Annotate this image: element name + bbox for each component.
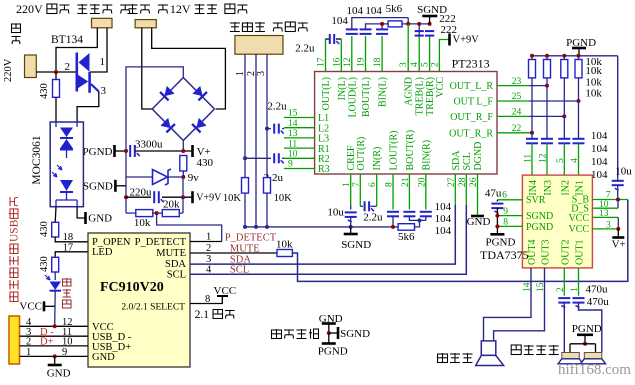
svg-text:LOUD(L): LOUD(L) bbox=[347, 77, 358, 118]
wire R430b to FC910 pin18 bbox=[55, 237, 88, 242]
svg-text:104: 104 bbox=[435, 225, 452, 237]
svg-text:PT2313: PT2313 bbox=[452, 57, 490, 71]
symbol V+ bar (TDA) bbox=[612, 236, 624, 239]
svg-text:IN2: IN2 bbox=[560, 180, 571, 196]
svg-text:V+9V: V+9V bbox=[196, 193, 222, 204]
wire IN(R) pin down bbox=[376, 174, 378, 206]
svg-text:104: 104 bbox=[347, 5, 364, 17]
wire column 3 upper bbox=[563, 56, 565, 60]
svg-text:OUT3: OUT3 bbox=[541, 239, 552, 265]
IC U5 TDA7375 box bbox=[522, 175, 592, 268]
svg-text:SGND: SGND bbox=[83, 181, 113, 193]
wire column 4 lower bbox=[578, 78, 580, 139]
svg-text:2.2u: 2.2u bbox=[295, 42, 315, 54]
symbol V+ bar bbox=[191, 145, 194, 157]
wire PT2313 input stub 9 bbox=[284, 168, 315, 170]
svg-text:VCC: VCC bbox=[19, 301, 42, 313]
wire output 4 to column bbox=[529, 132, 532, 134]
svg-text:5k6: 5k6 bbox=[398, 231, 415, 243]
svg-text:PGND: PGND bbox=[486, 237, 516, 249]
junction R tap bbox=[243, 156, 247, 160]
junction pull bus col1 bbox=[530, 54, 534, 58]
wire OUT4 to subwoofer bbox=[484, 268, 532, 341]
bridge rectifier diamond bbox=[183, 78, 214, 110]
capacitor C 104 in4 bbox=[573, 138, 585, 140]
speaker surround 1 bbox=[562, 353, 580, 359]
junction pin21/20 caps bbox=[418, 218, 422, 222]
wire FC910 pin1 P_DETECT bbox=[190, 241, 222, 243]
wire AC2 from J3 right pin to bridge right bbox=[152, 28, 226, 109]
svg-text:D+: D+ bbox=[40, 337, 54, 348]
wire left rail to 10k bbox=[126, 212, 136, 214]
wire PT2313 input stub 15 bbox=[284, 117, 315, 119]
junction bus pin3 bbox=[265, 225, 269, 229]
svg-text:1: 1 bbox=[100, 56, 106, 68]
wire 104b to mid bus bbox=[366, 24, 389, 30]
resistor R 10k MUTE bbox=[277, 250, 292, 257]
svg-text:2.0/2.1 SELECT: 2.0/2.1 SELECT bbox=[121, 303, 185, 313]
wire OUT(R) to 2.2u bbox=[360, 205, 363, 207]
svg-text:3: 3 bbox=[256, 71, 267, 76]
svg-text:220V: 220V bbox=[16, 2, 43, 16]
svg-text:10u: 10u bbox=[615, 166, 632, 178]
svg-text:10k: 10k bbox=[585, 65, 602, 77]
wire PT2313 output 4 bbox=[497, 132, 529, 134]
wire USB row D- bbox=[20, 335, 89, 337]
svg-text:9v: 9v bbox=[188, 172, 200, 184]
svg-text:BOUT(R): BOUT(R) bbox=[405, 130, 416, 171]
capacitor C 104 (pin12) bbox=[346, 28, 358, 30]
svg-text:430: 430 bbox=[39, 83, 50, 99]
svg-text:IN(R): IN(R) bbox=[372, 147, 383, 171]
bridge diode D3 (bottom-left) bbox=[160, 118, 175, 133]
zener diode D5 9v bbox=[153, 170, 168, 185]
wire SVR to 47u bbox=[496, 200, 498, 202]
resistor R 10k pull 1 bbox=[529, 60, 536, 78]
wire PT2313 input stub 13 bbox=[284, 137, 315, 139]
svg-text:PGND: PGND bbox=[83, 146, 113, 158]
svg-text:VCC: VCC bbox=[214, 285, 237, 297]
wire S_B to D_S bbox=[617, 200, 619, 209]
wire node A down to R 430 bbox=[55, 72, 57, 80]
wire SGND stub (U5) bbox=[497, 215, 522, 217]
svg-text:5k6: 5k6 bbox=[386, 3, 403, 15]
symbol GND bar (MOC) bbox=[84, 212, 87, 224]
wire SGND stem (CREF) bbox=[350, 227, 352, 234]
svg-text:V+9V: V+9V bbox=[453, 35, 480, 46]
junction divider mid bbox=[155, 211, 159, 215]
svg-text:V+: V+ bbox=[612, 238, 626, 250]
svg-text:4: 4 bbox=[570, 158, 580, 163]
svg-text:R3: R3 bbox=[318, 164, 330, 175]
svg-text:SDA: SDA bbox=[165, 259, 186, 270]
svg-text:11: 11 bbox=[524, 154, 534, 163]
wire PGND bar to cap 3300u bbox=[115, 150, 129, 152]
svg-text:TDA7375: TDA7375 bbox=[480, 248, 529, 262]
junction pull bus col4 bbox=[577, 54, 581, 58]
wire output 1 to column bbox=[529, 85, 547, 87]
wire FC910 pin8 to VCC bbox=[190, 296, 222, 304]
connector J4 PC audio bbox=[235, 36, 283, 55]
symbol GND bar (DGND) bbox=[471, 215, 484, 218]
svg-text:430: 430 bbox=[197, 157, 214, 169]
svg-text:GND: GND bbox=[92, 352, 115, 363]
wire column 2 to TDA pin bbox=[546, 143, 548, 175]
svg-text:OUT(R): OUT(R) bbox=[356, 137, 367, 171]
wire USB row GND bbox=[20, 355, 89, 357]
capacitor C 104 in1 bbox=[526, 138, 538, 140]
svg-text:FC910V20: FC910V20 bbox=[100, 280, 164, 295]
svg-text:13: 13 bbox=[288, 129, 298, 139]
resistor R 10k pull 4 bbox=[575, 60, 582, 78]
svg-text:VCC: VCC bbox=[568, 224, 589, 235]
wire left rail vertical bbox=[125, 151, 127, 213]
junction 5k6b left bbox=[391, 225, 395, 229]
svg-text:14: 14 bbox=[288, 119, 298, 129]
svg-text:DGND: DGND bbox=[473, 142, 484, 171]
resistor R 430 P_OPEN bbox=[52, 222, 59, 237]
wire 47u to PGND bbox=[496, 208, 498, 234]
wire 220u to V+9V bar bbox=[162, 196, 193, 198]
wire audio ground bus bbox=[245, 226, 351, 228]
wire star GND stem bbox=[328, 324, 330, 334]
junction output 2/column bbox=[577, 99, 581, 103]
label surround speakers bbox=[511, 345, 559, 355]
wire SGND bar to left rail bbox=[115, 185, 126, 187]
symbol V+9V bar (left) bbox=[191, 191, 194, 203]
capacitor C 222 (pin5) bbox=[425, 30, 434, 32]
wire audio pin1 down bbox=[244, 54, 246, 227]
svg-text:6: 6 bbox=[502, 191, 507, 201]
wire zener cathode to 9v node bbox=[168, 176, 184, 178]
symbol GND bar (USB) bbox=[48, 364, 62, 367]
svg-text:IN4: IN4 bbox=[528, 180, 539, 196]
svg-text:47u: 47u bbox=[485, 187, 502, 199]
svg-text:430: 430 bbox=[39, 221, 50, 237]
svg-text:SGND: SGND bbox=[526, 211, 553, 222]
wire R430 to 9v node bbox=[182, 171, 184, 177]
svg-text:OUT_L_R: OUT_L_R bbox=[450, 81, 494, 92]
symbol SGND bar (CREF) bbox=[344, 233, 358, 236]
resistor R 10K right bbox=[264, 178, 271, 194]
wire bridge bottom to V+ node bbox=[182, 141, 184, 152]
wire divider mid to P_DETECT bbox=[157, 213, 222, 241]
svg-text:OUT_R_F: OUT_R_F bbox=[450, 112, 493, 123]
capacitor C 104 (pin20) bbox=[420, 211, 432, 213]
wire column 4 to TDA pin bbox=[578, 143, 580, 175]
wire PGND stub (U5) bbox=[497, 225, 522, 227]
wire 5k6b right bend bbox=[415, 220, 420, 227]
svg-text:104: 104 bbox=[435, 213, 452, 225]
wire V+ stem bbox=[617, 229, 619, 237]
wire R cap to R2 stub bbox=[282, 157, 284, 159]
wire PGND to speaker returns bbox=[570, 343, 596, 345]
symbol SGND bar (top) bbox=[422, 15, 437, 18]
svg-text:2.2u: 2.2u bbox=[363, 211, 383, 223]
wire OUT2 down bbox=[563, 268, 565, 296]
wire column 1 lower bbox=[531, 78, 533, 139]
capacitor C 220u bbox=[153, 191, 155, 203]
svg-text:SCL: SCL bbox=[462, 152, 473, 170]
junction 9v node bbox=[181, 175, 185, 179]
wire VCC bar to LED column bbox=[44, 305, 55, 307]
junction SGND/47u bbox=[495, 214, 499, 218]
junction PGND/47u bbox=[495, 224, 499, 228]
junction 9v/220u node bbox=[181, 195, 185, 199]
svg-text:20k: 20k bbox=[163, 199, 180, 211]
wire OUT(R) pin down bbox=[359, 174, 361, 206]
svg-text:10: 10 bbox=[288, 150, 298, 160]
wire R430c to LED bbox=[54, 272, 56, 280]
svg-text:9: 9 bbox=[288, 160, 293, 170]
junction V+ node bbox=[181, 149, 185, 153]
svg-text:3300u: 3300u bbox=[135, 139, 163, 151]
symbol GND bar (star) bbox=[322, 322, 336, 325]
wire 9v node to 20k bbox=[182, 177, 184, 213]
wire SCL pin down bbox=[465, 174, 467, 205]
resistor R 5k6 bottom bbox=[398, 224, 414, 231]
wire PT2313 input stub 10 bbox=[284, 157, 315, 159]
svg-text:104: 104 bbox=[435, 201, 452, 213]
svg-text:104: 104 bbox=[591, 156, 608, 168]
junction output 3/column bbox=[562, 114, 566, 118]
wire BIN(R) pin down bbox=[425, 174, 427, 210]
svg-text:2.1: 2.1 bbox=[195, 309, 210, 321]
svg-text:10k: 10k bbox=[585, 88, 602, 100]
junction left-rail/220u bbox=[124, 195, 128, 199]
svg-text:104: 104 bbox=[365, 5, 382, 17]
label zhishideng indicator (vertical) bbox=[63, 278, 72, 308]
capacitor C 470u (OUT1) bbox=[573, 297, 585, 299]
wire 2.2u to IN(R) bbox=[371, 205, 377, 207]
wire 220V input to triac MT1 bbox=[36, 71, 75, 73]
wire 470u-1 to speaker1 bbox=[563, 303, 565, 353]
wire 10u to bus bbox=[350, 217, 352, 227]
junction 104c/bus bbox=[380, 22, 384, 26]
wire R tap to R cap bbox=[245, 157, 271, 159]
wire 20k to 9v column bbox=[179, 212, 183, 214]
wire D_S stub bbox=[592, 207, 618, 209]
wire pin18 up bbox=[381, 36, 383, 72]
wire pin5 up bbox=[429, 36, 431, 72]
wire zener anode to left rail bbox=[126, 176, 153, 178]
wire OUT1 down bbox=[578, 268, 580, 296]
svg-text:PGND: PGND bbox=[526, 222, 553, 233]
junction 222a bbox=[417, 22, 421, 26]
wire FC910 pin2 to R10k bbox=[190, 252, 277, 254]
wire 5k6 to AGND node bbox=[402, 23, 430, 25]
resistor R 10k pull 3 bbox=[561, 60, 568, 78]
svg-text:SGND: SGND bbox=[341, 239, 371, 251]
svg-text:IN(L): IN(L) bbox=[337, 77, 348, 100]
svg-text:11: 11 bbox=[288, 139, 297, 149]
wire 10u top stem bbox=[617, 179, 619, 181]
optocoupler U2 MOC3061 box bbox=[50, 122, 83, 207]
wire 10k to 20k bbox=[153, 212, 163, 214]
label input (vertical) bbox=[12, 24, 21, 44]
svg-text:OUT(L): OUT(L) bbox=[321, 77, 332, 110]
wire 104 pin20 stem bbox=[425, 216, 427, 220]
svg-text:P_DETECT: P_DETECT bbox=[135, 237, 187, 248]
svg-text:PGND: PGND bbox=[318, 346, 348, 358]
svg-text:430: 430 bbox=[39, 256, 50, 272]
svg-text:470u: 470u bbox=[586, 284, 609, 296]
svg-text:12: 12 bbox=[539, 153, 549, 163]
svg-text:5: 5 bbox=[556, 158, 566, 163]
wire pin4 up bbox=[418, 36, 420, 72]
wire S_B to standby bus bbox=[592, 199, 627, 201]
svg-text:MOC3061: MOC3061 bbox=[31, 135, 43, 184]
svg-text:BIN(R): BIN(R) bbox=[421, 140, 432, 171]
junction output 4/column bbox=[530, 131, 534, 135]
wire VCC pin2 to V+9V bbox=[439, 40, 448, 72]
symbol PGND bar (bus) bbox=[572, 47, 586, 50]
svg-text:12V: 12V bbox=[170, 2, 191, 16]
label transformer 12V AC input bbox=[128, 2, 248, 16]
symbol SGND bar (star) bbox=[337, 327, 340, 339]
wire SVR stub bbox=[497, 199, 522, 201]
symbol PGND bar (bridge) bbox=[113, 145, 116, 157]
MOC3061 internal LED bbox=[52, 165, 77, 207]
svg-text:LOUT(R): LOUT(R) bbox=[389, 131, 400, 171]
connector J3 transformer-12V AC bbox=[135, 20, 156, 28]
capacitor C 3300u bbox=[129, 145, 131, 157]
wire to L cap bbox=[267, 128, 271, 130]
wire 104a to top bus bbox=[352, 18, 408, 30]
wire star SGND stem bbox=[329, 332, 338, 334]
wire 2.2u cap to pin16 bbox=[336, 38, 341, 40]
junction bus pin2 bbox=[254, 225, 258, 229]
wire PT2313 input stub 11 bbox=[284, 147, 315, 149]
wire AGND pin up bbox=[407, 24, 409, 72]
wire 470u-2 to speaker2 bbox=[579, 303, 602, 353]
wire column 2 lower bbox=[546, 78, 548, 139]
wire pin19 up bbox=[365, 36, 367, 72]
wire 104c stem bbox=[381, 24, 383, 30]
svg-text:SGND: SGND bbox=[340, 328, 370, 340]
svg-text:470u: 470u bbox=[587, 296, 610, 308]
resistor R 430 (V+ to 9v) bbox=[180, 156, 187, 172]
label one-point common ground bbox=[272, 329, 320, 339]
junction VCC row bbox=[53, 324, 57, 328]
svg-text:220V: 220V bbox=[3, 58, 14, 82]
connector J1 220V input bbox=[25, 55, 37, 78]
svg-text:BOUT(L): BOUT(L) bbox=[361, 77, 372, 117]
wire PT2313 input stub 14 bbox=[284, 127, 315, 129]
svg-text:TREB(L): TREB(L) bbox=[415, 77, 426, 115]
wire PGND stem (bus) bbox=[578, 48, 580, 56]
svg-text:VCC: VCC bbox=[568, 213, 589, 224]
wire triac gate to MOC3061 pin bbox=[77, 92, 99, 123]
svg-text:2.2u: 2.2u bbox=[267, 101, 287, 113]
svg-text:hifi168.com: hifi168.com bbox=[558, 362, 631, 378]
svg-text:AGND: AGND bbox=[404, 77, 415, 106]
resistor R 20k divider bbox=[162, 210, 179, 217]
resistor R 5k6 top bbox=[388, 21, 402, 27]
capacitor C 104 (pin18) bbox=[376, 28, 388, 30]
svg-text:VCC: VCC bbox=[435, 77, 446, 98]
wire pin16 up bbox=[340, 39, 342, 72]
wire top bus down bbox=[407, 18, 409, 24]
wire pin17 up bbox=[325, 39, 327, 72]
junction pull bus col3 bbox=[562, 54, 566, 58]
svg-text:P_DETECT: P_DETECT bbox=[225, 233, 277, 244]
wire PGND stem (speakers) bbox=[584, 335, 586, 344]
svg-text:BT134: BT134 bbox=[51, 34, 83, 46]
junction S_B/10u bbox=[616, 198, 620, 202]
resistor R 430 LED bbox=[52, 257, 59, 272]
capacitor C 2.2u (R in) bbox=[364, 201, 366, 211]
wire BOUT(R) pin down bbox=[408, 174, 410, 210]
junction output 1/column bbox=[545, 84, 549, 88]
bridge diode D1 (top-left) bbox=[160, 86, 175, 101]
label 2.1 mode bbox=[195, 309, 235, 321]
wire output 3 to column bbox=[529, 115, 564, 117]
wire J2 left pin to node A bbox=[56, 28, 97, 72]
wire MOC pin3 to R430b bbox=[54, 207, 57, 223]
svg-text:104: 104 bbox=[591, 169, 608, 181]
wire PT2313 output 3 bbox=[497, 115, 529, 117]
junction CREF/SGND bbox=[349, 225, 353, 229]
bridge diode D4 (bottom-right) bbox=[192, 118, 207, 133]
svg-text:LED: LED bbox=[92, 247, 113, 258]
capacitor C 10u standby bbox=[612, 180, 624, 182]
svg-text:OUT1: OUT1 bbox=[575, 239, 586, 265]
wire star PGND stem bbox=[328, 333, 330, 343]
svg-text:MUTE: MUTE bbox=[230, 243, 260, 254]
capacitor C 104 (pin8) bbox=[387, 211, 399, 213]
wire MOC pin4 to GND bbox=[77, 207, 84, 218]
svg-text:OUT L_F: OUT L_F bbox=[453, 97, 493, 108]
junction star ground bbox=[327, 331, 331, 335]
junction VCC3/V+ bbox=[616, 227, 620, 231]
junction AGND node bbox=[406, 22, 410, 26]
symbol V+9V bar (top) bbox=[448, 34, 451, 46]
wire PGND pull bus bbox=[532, 55, 618, 57]
capacitor C 47u SVR bbox=[491, 203, 503, 205]
wire speaker2 return bbox=[595, 344, 597, 353]
resistor R 430 gate bbox=[53, 80, 60, 98]
junction 222b bbox=[428, 22, 432, 26]
svg-text:15: 15 bbox=[288, 109, 298, 119]
wire PT2313 output 1 bbox=[497, 85, 529, 87]
symbol PGND bar (U5 left) bbox=[490, 233, 504, 236]
svg-text:SVR: SVR bbox=[526, 195, 546, 206]
wire SDA pin down bbox=[454, 174, 456, 205]
wire MUTE bus bbox=[292, 200, 627, 282]
IC U3 FC910V20 box bbox=[88, 233, 190, 367]
wire OUT3 to subwoofer bbox=[494, 268, 545, 341]
label connect-to-PC-USB-port (vertical) bbox=[9, 197, 21, 302]
wire GND stem (USB) bbox=[54, 356, 56, 364]
junction GND row bbox=[53, 354, 57, 358]
wire column 1 upper bbox=[531, 56, 533, 60]
capacitor C 2.2u L bbox=[273, 124, 275, 134]
junction node A bbox=[54, 70, 58, 74]
capacitor C 10u CREF bbox=[345, 211, 357, 213]
junction L coupling bbox=[265, 127, 269, 131]
wire VCC13 to VCC3 bbox=[617, 217, 619, 229]
wire R430 to MOC3061 pin1 bbox=[55, 97, 57, 122]
wire VCC13 stub bbox=[592, 216, 618, 218]
wire CREF pin down bbox=[350, 174, 352, 205]
wire LED to VCC row bbox=[54, 291, 57, 327]
capacitor C 104 (pin19) bbox=[360, 28, 372, 30]
wire 104 pin21 stem bbox=[409, 216, 425, 220]
svg-text:IN1: IN1 bbox=[575, 180, 586, 196]
symbol VCC tick (pin8) bbox=[217, 295, 228, 297]
speaker subwoofer bbox=[481, 341, 496, 356]
